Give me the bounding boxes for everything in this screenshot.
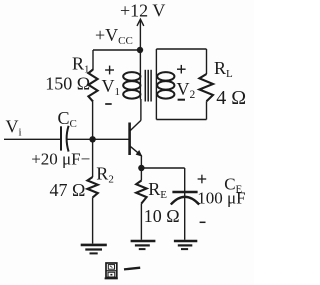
transistor Q1 bbox=[130, 120, 143, 156]
label CE minus bbox=[200, 221, 206, 223]
wire base bbox=[93, 138, 129, 140]
wire secondary loop right top bbox=[206, 49, 208, 74]
svg-text:4 Ω: 4 Ω bbox=[216, 87, 246, 109]
wire emitter node to CE bbox=[141, 167, 184, 169]
resistor RL bbox=[199, 74, 213, 101]
svg-text:47 Ω: 47 Ω bbox=[50, 180, 86, 200]
svg-text:150 Ω: 150 Ω bbox=[45, 74, 90, 94]
wire R1 top bbox=[92, 50, 94, 70]
resistor RE bbox=[136, 181, 146, 204]
caption figure one bbox=[105, 263, 141, 278]
capacitor CE bbox=[171, 192, 199, 205]
wire secondary loop bottom bbox=[156, 119, 206, 121]
resistor R1 bbox=[88, 70, 97, 102]
inductor V1 primary bbox=[123, 72, 140, 99]
wire R1 bottom to base node bbox=[92, 102, 94, 140]
supply arrow bbox=[137, 19, 144, 50]
label V2 plus bbox=[177, 65, 186, 74]
transformer core bbox=[145, 70, 151, 102]
svg-text:+12 V: +12 V bbox=[120, 1, 165, 21]
ground R2 bbox=[81, 245, 107, 254]
wire secondary loop top bbox=[156, 48, 206, 50]
wire base node to R2 bbox=[92, 139, 94, 177]
wire collector bbox=[140, 99, 142, 120]
wire input bbox=[4, 138, 60, 140]
wire secondary loop left bbox=[155, 49, 157, 120]
svg-text:10 Ω: 10 Ω bbox=[144, 206, 180, 226]
node supply junction bbox=[137, 47, 143, 53]
wire R2 to ground bbox=[92, 198, 94, 244]
resistor R2 bbox=[87, 177, 97, 198]
wire RE to ground bbox=[140, 204, 142, 240]
wire Cc to base node bbox=[67, 138, 92, 140]
node base junction bbox=[89, 136, 95, 142]
wire CE to ground bbox=[184, 197, 186, 240]
wire secondary loop right bottom bbox=[206, 101, 208, 119]
wire supply to primary coil bbox=[139, 50, 141, 99]
ground CE bbox=[174, 241, 197, 249]
wire node to RE bbox=[140, 168, 142, 181]
label CE plus bbox=[198, 175, 207, 184]
svg-text:+20 μF−: +20 μF− bbox=[31, 150, 90, 169]
wire VCC rail bbox=[93, 49, 140, 51]
ground RE bbox=[131, 241, 156, 249]
capacitor Cc bbox=[61, 126, 69, 152]
label V1 plus bbox=[105, 66, 114, 75]
node emitter junction bbox=[138, 165, 144, 171]
label V2 minus bbox=[178, 99, 185, 101]
label V1 minus bbox=[105, 103, 112, 105]
inductor V2 secondary bbox=[157, 72, 174, 99]
wire emitter to node bbox=[140, 156, 142, 169]
svg-text:100 μF: 100 μF bbox=[197, 189, 245, 208]
